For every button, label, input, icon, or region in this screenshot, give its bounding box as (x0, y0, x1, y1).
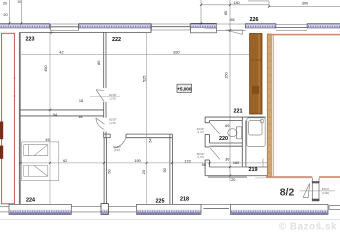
svg-text:219: 219 (249, 167, 258, 173)
svg-text:50: 50 (108, 169, 112, 173)
elevation marker box (177, 84, 192, 92)
tick slashes at dimension ends (8, 4, 270, 177)
dark red blocks left edge (0, 122, 3, 140)
svg-text:226: 226 (250, 17, 259, 23)
svg-text:218: 218 (180, 196, 189, 202)
svg-text:62: 62 (63, 159, 67, 163)
room 8/2 top wall (269, 34, 340, 36)
svg-text:20: 20 (3, 2, 7, 6)
svg-text:225: 225 (156, 198, 165, 204)
opening lines 201-230 (201, 205, 230, 209)
door 223 leaf (96, 90, 104, 102)
top dimension line verticals left (9, 0, 269, 182)
dimension vertical x=50 (49, 33, 51, 204)
svg-text:525: 525 (142, 76, 146, 82)
top wall hatched bar 2 (79, 23, 151, 28)
wood party wall strip (267, 34, 271, 176)
wall right of room 225 (170, 134, 173, 205)
svg-text:300: 300 (302, 1, 308, 5)
opening lines 71-101 (71, 206, 101, 212)
balcony door gap lines bottom left (0, 206, 9, 212)
door 225 leaf (114, 138, 126, 149)
svg-text:© Bazoš.sk: © Bazoš.sk (279, 222, 337, 233)
window opening A (50, 24, 78, 31)
door 224 leaf (96, 118, 105, 130)
svg-text:223: 223 (26, 37, 35, 43)
opening lines 108-136 (108, 206, 136, 212)
room 8/2 bottom wall (266, 176, 312, 178)
wall between 224 and 225 (104, 138, 106, 204)
bathroom bottom wall lines (205, 167, 270, 176)
svg-text:224: 224 (26, 198, 35, 204)
svg-text:150: 150 (225, 72, 229, 78)
svg-text:170: 170 (184, 159, 190, 163)
top wall hatched bar 4 (307, 23, 340, 28)
top dimension horizontals (201, 1, 340, 7)
entrance door 8/2 (303, 178, 319, 201)
dimension texts (3, 0, 308, 182)
svg-text:50: 50 (202, 163, 206, 167)
svg-text:54: 54 (149, 138, 153, 142)
opening C with swing triangle (205, 24, 245, 34)
niche stub line (262, 159, 264, 168)
svg-text:65: 65 (230, 18, 234, 22)
kitchen brown wall strip (250, 34, 262, 115)
svg-text:(1 97): (1 97) (110, 97, 117, 100)
svg-text:45: 45 (45, 138, 49, 142)
toilet in 220 (228, 127, 242, 139)
svg-text:80: 80 (97, 61, 101, 65)
room 8/2 inner wall line (272, 35, 274, 177)
svg-text:140: 140 (233, 1, 239, 5)
svg-text:+5,000: +5,000 (177, 86, 192, 91)
svg-text:20: 20 (3, 13, 7, 17)
svg-text:(1 97): (1 97) (114, 149, 121, 152)
svg-text:20: 20 (142, 170, 146, 174)
corner stub below bar2 end (150, 28, 152, 32)
svg-text:8/2: 8/2 (280, 187, 295, 199)
svg-text:18: 18 (79, 99, 83, 103)
window1 box with hatch top (191, 23, 217, 32)
svg-text:222: 222 (112, 37, 121, 43)
dimension horizontal y=54 (21, 53, 250, 55)
bathroom bottom thick line (208, 176, 247, 178)
opening D window (276, 25, 307, 31)
corridor wall segments x~104 (104, 32, 106, 137)
svg-text:(1 97): (1 97) (197, 156, 204, 159)
entrance door leader (300, 190, 335, 192)
wall between 223 and 224 (20, 110, 104, 116)
opening B (window band) (151, 24, 190, 30)
balcony door ticks on red line (13, 78, 16, 96)
door WC leaf (210, 123, 220, 134)
svg-text:160: 160 (233, 161, 239, 165)
sink unit in niche (247, 118, 265, 147)
bathroom block walls (double-line) (205, 117, 266, 176)
top wall hatched bar 3 (245, 23, 276, 28)
dimension chain y=163.8 (21, 162, 268, 164)
svg-text:820: 820 (173, 50, 179, 54)
svg-text:221: 221 (234, 109, 243, 115)
svg-text:(1 97): (1 97) (197, 131, 204, 134)
dimension vertical x=146.6 (146, 33, 148, 204)
svg-text:42: 42 (59, 50, 63, 54)
bottom pier block (101, 204, 108, 215)
svg-text:18: 18 (78, 115, 82, 119)
svg-text:(1 97): (1 97) (110, 122, 117, 125)
door 223 leader (90, 96, 120, 98)
top wall hatched bar 1 (0, 23, 50, 28)
svg-text:85: 85 (224, 11, 228, 15)
door size labels (109, 94, 330, 195)
red balcony outline (2, 33, 15, 204)
svg-text:190: 190 (134, 159, 140, 163)
svg-text:20: 20 (231, 178, 235, 182)
svg-text:30: 30 (225, 158, 229, 162)
bottom right step (329, 206, 340, 210)
room 225 top wall (104, 134, 173, 138)
svg-text:450: 450 (44, 65, 48, 71)
wardrobe furniture room 224 (22, 142, 59, 181)
svg-text:80/197: 80/197 (322, 189, 330, 191)
svg-text:50: 50 (163, 168, 167, 172)
svg-text:(1 300): (1 300) (322, 193, 330, 195)
bottom window box 3 (long) (230, 204, 328, 214)
svg-text:69: 69 (225, 124, 229, 128)
door bath leaf (210, 148, 220, 160)
svg-text:54: 54 (53, 113, 57, 117)
small cross tick below bar gap (49, 31, 52, 35)
bottom window box 2 (137, 204, 202, 214)
bottom wall: window box 1 (9, 204, 71, 214)
svg-text:220: 220 (219, 136, 228, 142)
svg-text:10: 10 (18, 0, 22, 4)
left exterior wall V1 (19, 33, 21, 205)
inner wall face line top-left rooms (19, 31, 151, 33)
faint bottom line (0, 219, 340, 221)
